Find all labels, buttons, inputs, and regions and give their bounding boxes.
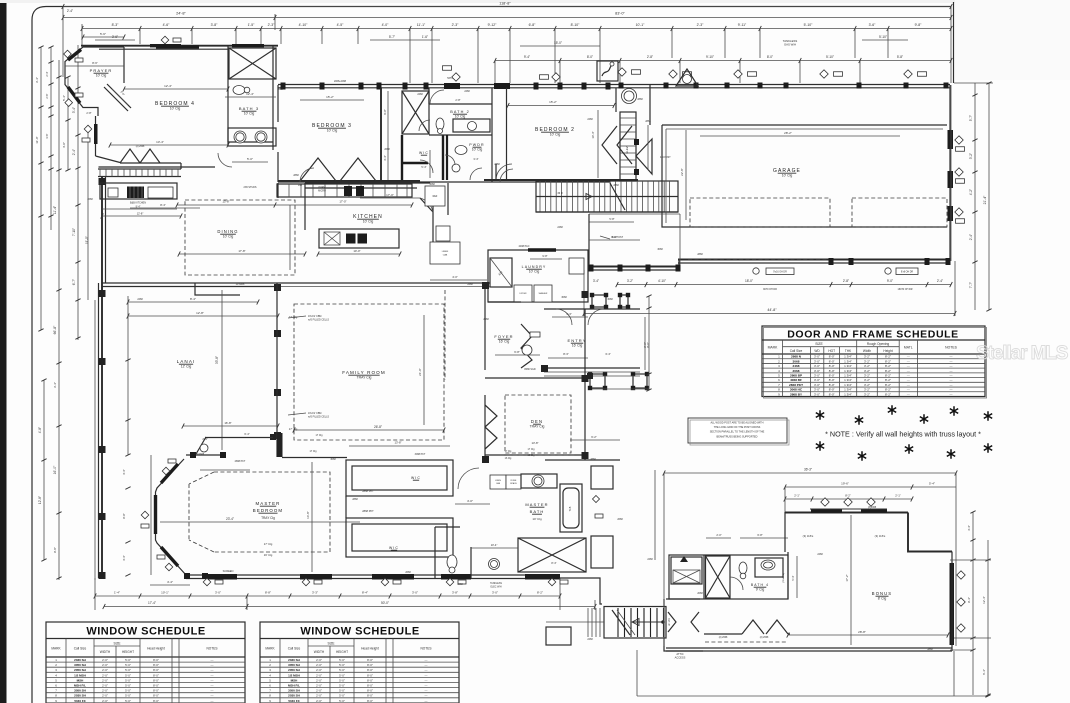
svg-text:THK: THK xyxy=(845,349,852,353)
svg-text:LAUNDRY: LAUNDRY xyxy=(522,265,547,269)
svg-text:5040 FX: 5040 FX xyxy=(74,699,85,703)
svg-text:2468 PLD: 2468 PLD xyxy=(519,245,530,248)
entry porch columns xyxy=(541,365,548,372)
bath4 cabinet xyxy=(671,557,702,584)
svg-text:1 3/4": 1 3/4" xyxy=(844,359,852,363)
svg-text:2'-0": 2'-0" xyxy=(102,694,108,698)
svg-text:DRYER: DRYER xyxy=(520,293,528,295)
svg-text:5040 FX: 5040 FX xyxy=(288,699,299,703)
svg-text:8'-0": 8'-0" xyxy=(829,364,835,368)
svg-text:8'-0": 8'-0" xyxy=(367,658,373,662)
svg-text:w/S FILLED CELLS: w/S FILLED CELLS xyxy=(308,415,329,418)
scan edge black strip xyxy=(0,0,7,703)
bedroom4 south xyxy=(98,166,99,168)
svg-text:2868: 2868 xyxy=(927,648,933,651)
svg-text:2'-0": 2'-0" xyxy=(102,663,108,667)
svg-text:8'-8": 8'-8" xyxy=(122,513,126,518)
svg-text:LINEN: LINEN xyxy=(442,251,449,253)
garage gable xyxy=(676,69,698,86)
svg-text:10' Clg: 10' Clg xyxy=(244,112,255,116)
svg-text:12'-8": 12'-8" xyxy=(38,496,42,504)
svg-text:3'-3": 3'-3" xyxy=(312,591,318,595)
svg-text:8'-8": 8'-8" xyxy=(265,591,271,595)
svg-text:2868 N: 2868 N xyxy=(791,355,802,359)
master linen robe boxes xyxy=(490,475,506,489)
svg-text:---: --- xyxy=(425,684,428,688)
svg-text:NOTES: NOTES xyxy=(945,346,957,350)
svg-text:8'-2": 8'-2" xyxy=(885,355,891,359)
svg-text:(3) 3x6's: (3) 3x6's xyxy=(875,534,886,538)
svg-text:16' Clg: 16' Clg xyxy=(264,553,273,557)
attic hall doors xyxy=(668,612,676,632)
svg-text:2'-0": 2'-0" xyxy=(316,689,322,693)
svg-text:8'-3": 8'-3" xyxy=(112,23,120,27)
svg-text:3'-8": 3'-8" xyxy=(452,591,458,595)
svg-text:14'-8": 14'-8" xyxy=(306,511,310,519)
master internal dim xyxy=(311,462,313,572)
dim row 118-8 xyxy=(63,6,951,8)
prayer diamonds xyxy=(64,50,72,58)
entry court piers xyxy=(592,295,606,307)
svg-text:3'-0": 3'-0" xyxy=(814,373,820,377)
left dim col xyxy=(40,47,42,330)
svg-text:16 Clg: 16 Clg xyxy=(528,454,536,457)
svg-text:8' Clg: 8' Clg xyxy=(878,597,887,601)
svg-text:3068: 3068 xyxy=(561,296,567,299)
svg-text:8080 SGD: 8080 SGD xyxy=(524,368,535,371)
svg-text:1/2 MSH: 1/2 MSH xyxy=(288,673,300,677)
svg-text:---: --- xyxy=(950,359,953,363)
col blocks family west xyxy=(274,284,281,291)
svg-text:2868: 2868 xyxy=(637,98,643,101)
garage bottom wall xyxy=(678,259,950,261)
stairs lower xyxy=(604,607,666,639)
svg-text:3050 SH: 3050 SH xyxy=(288,689,300,693)
svg-text:BONUS: BONUS xyxy=(872,591,892,596)
svg-text:HGT: HGT xyxy=(828,349,835,353)
svg-text:---: --- xyxy=(950,364,953,368)
svg-text:1/2 MSH: 1/2 MSH xyxy=(74,673,86,677)
svg-text:MATL: MATL xyxy=(904,346,913,350)
svg-text:2468: 2468 xyxy=(557,226,563,229)
svg-text:10' Clg: 10' Clg xyxy=(550,133,561,137)
svg-text:CAB: CAB xyxy=(443,253,448,256)
svg-text:28'-2": 28'-2" xyxy=(784,131,792,135)
svg-text:2468: 2468 xyxy=(793,364,800,368)
svg-text:3050 SH: 3050 SH xyxy=(74,689,86,693)
svg-text:ATTIC: ATTIC xyxy=(676,652,683,656)
svg-text:4'-0": 4'-0" xyxy=(382,23,390,27)
svg-text:3'-0": 3'-0" xyxy=(814,364,820,368)
bath3 dim xyxy=(225,96,276,98)
svg-text:WASHER: WASHER xyxy=(539,292,548,295)
svg-text:2'-0": 2'-0" xyxy=(316,673,322,677)
svg-text:8'-0": 8'-0" xyxy=(829,355,835,359)
svg-text:7'-7": 7'-7" xyxy=(969,282,973,288)
svg-text:5'-0": 5'-0" xyxy=(125,663,131,667)
door and frame schedule table xyxy=(762,326,985,397)
laundry walls xyxy=(488,250,588,302)
svg-text:---: --- xyxy=(907,373,910,377)
svg-text:3'-6": 3'-6" xyxy=(869,23,877,27)
svg-text:2'-4": 2'-4" xyxy=(72,149,76,155)
porch band under bedroom4 xyxy=(98,168,181,170)
front wall bedroom4/bath3 xyxy=(81,45,278,47)
svg-text:12'-4": 12'-4" xyxy=(246,92,254,96)
svg-text:5'-8": 5'-8" xyxy=(897,55,903,59)
master tub xyxy=(560,484,582,532)
svg-text:17'-0": 17'-0" xyxy=(386,193,394,197)
svg-text:ALL WOOD POST ARE TO BE ALIGNE: ALL WOOD POST ARE TO BE ALIGNED WITH xyxy=(711,422,764,425)
svg-text:3'-4": 3'-4" xyxy=(605,352,611,356)
svg-text:9'-8": 9'-8" xyxy=(383,109,387,115)
svg-text:5'-0": 5'-0" xyxy=(339,663,345,667)
svg-text:SIZE: SIZE xyxy=(815,342,823,346)
svg-text:17' Clg: 17' Clg xyxy=(289,427,298,431)
bonus window diamonds xyxy=(957,571,965,579)
master bay windows xyxy=(161,464,178,483)
front door arcs xyxy=(556,309,572,325)
svg-text:---: --- xyxy=(950,369,953,373)
svg-text:---: --- xyxy=(907,383,910,387)
svg-text:9'-8": 9'-8" xyxy=(915,23,923,27)
dim row 4 partial xyxy=(95,39,135,41)
bottom long line xyxy=(637,695,988,697)
svg-text:12'-8": 12'-8" xyxy=(196,311,204,315)
svg-text:9'-0": 9'-0" xyxy=(887,279,893,283)
svg-text:SCREEN: SCREEN xyxy=(223,569,234,573)
svg-text:2'-0": 2'-0" xyxy=(102,689,108,693)
svg-text:6'-8": 6'-8" xyxy=(529,23,537,27)
svg-text:2'-0": 2'-0" xyxy=(316,658,322,662)
svg-text:3050 SH: 3050 SH xyxy=(74,663,86,667)
svg-text:THE LONG GRID OF THE POST CROS: THE LONG GRID OF THE POST CROSS xyxy=(714,426,761,429)
svg-text:36'-3": 36'-3" xyxy=(804,468,812,472)
svg-text:1 3/4": 1 3/4" xyxy=(844,378,852,382)
master top diagonal ne xyxy=(196,437,206,454)
svg-text:5'-0": 5'-0" xyxy=(339,673,345,677)
svg-text:2030 SH: 2030 SH xyxy=(288,694,300,698)
svg-text:9'-8": 9'-8" xyxy=(53,547,57,553)
svg-text:6'-2": 6'-2" xyxy=(591,435,597,439)
stairs landing xyxy=(546,627,571,645)
svg-text:1 3/4": 1 3/4" xyxy=(844,369,852,373)
svg-text:2'-0": 2'-0" xyxy=(316,699,322,703)
elevator chevrons xyxy=(602,126,617,164)
svg-text:Head Height: Head Height xyxy=(147,647,165,651)
svg-text:3'-2": 3'-2" xyxy=(864,388,870,392)
svg-text:3068: 3068 xyxy=(429,183,435,186)
svg-text:17'-4": 17'-4" xyxy=(148,601,156,605)
front wall jambs xyxy=(281,83,286,90)
svg-text:9070 OH DR: 9070 OH DR xyxy=(763,288,777,291)
svg-text:MSH F/L: MSH F/L xyxy=(288,684,300,688)
svg-text:17'-8": 17'-8" xyxy=(238,249,245,253)
svg-text:3'-2": 3'-2" xyxy=(864,373,870,377)
svg-text:5'-0": 5'-0" xyxy=(247,157,253,161)
svg-text:3068: 3068 xyxy=(330,458,336,461)
svg-text:10'-4": 10'-4" xyxy=(591,131,595,138)
kitchen counter wall xyxy=(305,182,430,184)
svg-text:LANAI: LANAI xyxy=(177,359,196,364)
svg-text:2'-0": 2'-0" xyxy=(316,678,322,682)
svg-text:8'-0": 8'-0" xyxy=(153,673,159,677)
svg-text:2868: 2868 xyxy=(697,253,703,256)
family room top wall xyxy=(102,282,490,284)
bath hall dim xyxy=(471,547,518,549)
svg-text:10' Clg: 10' Clg xyxy=(223,235,234,239)
keys box xyxy=(597,61,618,81)
svg-text:2468: 2468 xyxy=(137,298,143,301)
gallery ceiling break xyxy=(500,454,575,456)
svg-text:---: --- xyxy=(907,364,910,368)
svg-text:---: --- xyxy=(211,684,214,688)
svg-text:---: --- xyxy=(211,663,214,667)
svg-text:10' Clg: 10' Clg xyxy=(327,129,338,133)
lanai upper dims xyxy=(128,301,258,303)
svg-text:17' Clg: 17' Clg xyxy=(264,542,273,546)
svg-text:REF: REF xyxy=(433,195,438,198)
svg-text:3'-0": 3'-0" xyxy=(412,591,418,595)
bonus top wall xyxy=(785,512,908,514)
svg-text:5'-4": 5'-4" xyxy=(62,95,66,101)
svg-text:WIDTH: WIDTH xyxy=(100,650,111,654)
svg-text:8'-0": 8'-0" xyxy=(153,689,159,693)
svg-text:CAB: CAB xyxy=(496,482,501,485)
svg-text:TRAY Clg: TRAY Clg xyxy=(530,425,545,429)
washer dryer xyxy=(514,285,532,302)
svg-text:BEAM/TRUSS BEING SUPPORTED: BEAM/TRUSS BEING SUPPORTED xyxy=(717,435,758,438)
svg-text:2868 BY: 2868 BY xyxy=(790,392,803,396)
svg-text:4'-10": 4'-10" xyxy=(658,279,666,283)
svg-text:21'-0": 21'-0" xyxy=(418,368,422,376)
under stair door xyxy=(636,139,652,174)
svg-text:3'-0": 3'-0" xyxy=(215,591,221,595)
svg-text:3068 PKT: 3068 PKT xyxy=(415,453,426,456)
svg-text:---: --- xyxy=(211,678,214,682)
svg-text:28'-8": 28'-8" xyxy=(858,630,866,634)
svg-text:ENTRY: ENTRY xyxy=(568,338,587,343)
svg-text:5'-10": 5'-10" xyxy=(879,35,887,39)
bedroom 3 walls xyxy=(277,85,279,122)
bottom dim rows master xyxy=(150,584,190,586)
svg-text:8'-0": 8'-0" xyxy=(153,668,159,672)
svg-text:2468: 2468 xyxy=(647,558,653,561)
svg-text:2'-0": 2'-0" xyxy=(102,684,108,688)
svg-text:---: --- xyxy=(425,663,428,667)
svg-text:---: --- xyxy=(211,689,214,693)
wic2 door arc xyxy=(458,468,479,489)
bonus walls xyxy=(784,512,786,552)
dining dashed xyxy=(185,200,295,275)
svg-text:8'-4": 8'-4" xyxy=(551,561,556,565)
svg-text:2030 SH: 2030 SH xyxy=(74,694,86,698)
svg-text:5'-0": 5'-0" xyxy=(125,658,131,662)
svg-text:12' Clg: 12' Clg xyxy=(181,365,192,369)
svg-text:6'-4": 6'-4" xyxy=(244,432,249,436)
svg-text:BATH: BATH xyxy=(530,509,545,514)
svg-text:4'-4": 4'-4" xyxy=(122,469,126,474)
svg-text:7'-10": 7'-10" xyxy=(72,228,76,236)
svg-text:8'-0": 8'-0" xyxy=(829,378,835,382)
svg-text:Width: Width xyxy=(863,349,871,353)
svg-text:2'-4": 2'-4" xyxy=(202,437,207,441)
svg-text:2'-0": 2'-0" xyxy=(316,694,322,698)
svg-text:4'-0": 4'-0" xyxy=(62,142,66,148)
wic walls thick xyxy=(402,135,443,180)
bath3 shower xbox xyxy=(229,48,276,79)
svg-text:12'-4": 12'-4" xyxy=(982,596,986,604)
svg-text:---: --- xyxy=(211,673,214,677)
svg-text:SIZE: SIZE xyxy=(327,641,334,645)
garage inner outline xyxy=(662,124,947,126)
lanai west wall xyxy=(101,176,103,578)
svg-text:Stellar MLS: Stellar MLS xyxy=(976,343,1068,364)
svg-text:---: --- xyxy=(950,392,953,396)
svg-text:2668: 2668 xyxy=(384,148,390,151)
svg-text:8'-2": 8'-2" xyxy=(885,383,891,387)
svg-text:3'-2": 3'-2" xyxy=(969,153,973,159)
garage door tags xyxy=(753,268,759,274)
svg-text:NOTES: NOTES xyxy=(421,647,432,651)
dims above master xyxy=(127,296,129,455)
prayer bay windows xyxy=(68,50,81,61)
lanai step corner xyxy=(195,283,240,295)
prayer bay walls xyxy=(65,47,124,116)
svg-text:1 3/4": 1 3/4" xyxy=(844,388,852,392)
svg-text:5'-0": 5'-0" xyxy=(339,684,345,688)
svg-text:8'-0": 8'-0" xyxy=(367,699,373,703)
svg-text:2030 SH: 2030 SH xyxy=(288,658,300,662)
attic hall xyxy=(664,599,703,651)
svg-text:3'-2": 3'-2" xyxy=(864,359,870,363)
bonus top dims xyxy=(664,472,956,474)
bedroom2 south wall dark xyxy=(484,179,638,181)
svg-text:3'-0": 3'-0" xyxy=(814,378,820,382)
svg-text:16 Clg: 16 Clg xyxy=(505,458,512,460)
svg-text:3'-2": 3'-2" xyxy=(864,369,870,373)
svg-text:11'-1": 11'-1" xyxy=(417,23,426,27)
garage door dims xyxy=(617,284,951,286)
svg-text:12'-4": 12'-4" xyxy=(164,84,172,88)
bonus right dims xyxy=(972,512,974,695)
svg-text:WINDOW SCHEDULE: WINDOW SCHEDULE xyxy=(86,626,205,638)
svg-text:MARK: MARK xyxy=(768,346,779,350)
svg-text:(2) 2668: (2) 2668 xyxy=(136,146,145,148)
svg-text:8'-6": 8'-6" xyxy=(92,61,98,65)
svg-text:MICRO: MICRO xyxy=(318,190,326,192)
bedroom3 door flare xyxy=(300,158,336,181)
bath4 shower xyxy=(706,556,731,598)
svg-text:SIZE: SIZE xyxy=(113,641,120,645)
svg-text:3'-2": 3'-2" xyxy=(864,378,870,382)
svg-text:3'-8": 3'-8" xyxy=(211,23,219,27)
svg-text:2468: 2468 xyxy=(417,93,423,96)
svg-text:---: --- xyxy=(907,392,910,396)
master bay diamonds xyxy=(162,467,170,475)
svg-text:---: --- xyxy=(425,668,428,672)
svg-text:2'-0": 2'-0" xyxy=(316,684,322,688)
svg-text:2668: 2668 xyxy=(405,571,411,574)
svg-text:MARK: MARK xyxy=(265,647,275,651)
svg-text:MSH: MSH xyxy=(291,678,298,682)
svg-text:8'-0": 8'-0" xyxy=(153,699,159,703)
svg-text:BATH 4: BATH 4 xyxy=(751,583,769,587)
svg-text:9' Clg: 9' Clg xyxy=(756,588,765,592)
svg-text:3'-4": 3'-4" xyxy=(967,525,971,531)
svg-text:2868: 2868 xyxy=(590,458,596,461)
svg-text:BATH 2: BATH 2 xyxy=(450,110,470,114)
svg-text:TUB: TUB xyxy=(569,506,572,511)
bath4 dims xyxy=(706,537,731,539)
east closets xyxy=(591,466,613,489)
svg-text:16070 OH DR: 16070 OH DR xyxy=(897,288,912,291)
svg-text:5'-0": 5'-0" xyxy=(339,699,345,703)
svg-text:9'-12": 9'-12" xyxy=(488,23,497,27)
dim row 24-8 / 83-0 xyxy=(63,17,951,19)
svg-text:2'-4": 2'-4" xyxy=(45,71,49,76)
pwdr xyxy=(446,135,448,180)
svg-text:---: --- xyxy=(211,668,214,672)
family room bottom wall xyxy=(282,457,347,459)
svg-text:MASTER: MASTER xyxy=(256,501,281,506)
svg-text:TANKLESS: TANKLESS xyxy=(490,582,502,585)
svg-text:24'-8": 24'-8" xyxy=(176,12,186,16)
svg-text:---: --- xyxy=(950,378,953,382)
svg-text:8'-0": 8'-0" xyxy=(829,359,835,363)
svg-text:8'-0": 8'-0" xyxy=(587,55,593,59)
svg-text:5'-0": 5'-0" xyxy=(125,678,131,682)
svg-text:DEN: DEN xyxy=(531,419,543,424)
svg-text:Rough Opening: Rough Opening xyxy=(867,342,890,346)
svg-text:WIDTH: WIDTH xyxy=(314,650,325,654)
svg-text:5'-0": 5'-0" xyxy=(339,668,345,672)
svg-text:4x4 POST: 4x4 POST xyxy=(612,236,624,239)
svg-text:4'-0": 4'-0" xyxy=(452,275,458,279)
hall to garage xyxy=(589,213,680,215)
svg-text:18'-0": 18'-0" xyxy=(745,279,753,283)
svg-text:LINEN: LINEN xyxy=(495,480,501,482)
note box xyxy=(688,418,787,443)
bath4 sink xyxy=(755,558,783,577)
stair hall xyxy=(536,181,678,212)
svg-text:2668: 2668 xyxy=(617,518,623,521)
den double doors xyxy=(485,405,497,427)
svg-text:11'-0": 11'-0" xyxy=(35,136,39,143)
svg-text:5'-0": 5'-0" xyxy=(339,658,345,662)
svg-text:2'-6": 2'-6" xyxy=(45,93,49,98)
svg-text:6'-8": 6'-8" xyxy=(757,533,762,537)
svg-text:2'-1": 2'-1" xyxy=(895,494,901,498)
svg-text:2'-8": 2'-8" xyxy=(455,98,460,102)
svg-text:w/S FILLED CELLS: w/S FILLED CELLS xyxy=(308,318,329,321)
svg-text:1 3/4": 1 3/4" xyxy=(844,355,852,359)
bonus inner dim xyxy=(788,634,948,636)
svg-text:17 Clg: 17 Clg xyxy=(528,448,536,451)
svg-text:3'-2": 3'-2" xyxy=(864,364,870,368)
svg-text:---: --- xyxy=(907,388,910,392)
note stars xyxy=(816,410,824,420)
pantry wall xyxy=(304,183,306,230)
se wing outline xyxy=(560,578,602,604)
master shower xyxy=(518,538,586,572)
svg-text:8'-2": 8'-2" xyxy=(885,359,891,363)
garage front wall posts xyxy=(619,83,624,89)
svg-text:---: --- xyxy=(211,658,214,662)
svg-text:3'-0": 3'-0" xyxy=(492,591,498,595)
svg-text:3068: 3068 xyxy=(607,298,613,301)
dining island dims xyxy=(179,253,305,255)
